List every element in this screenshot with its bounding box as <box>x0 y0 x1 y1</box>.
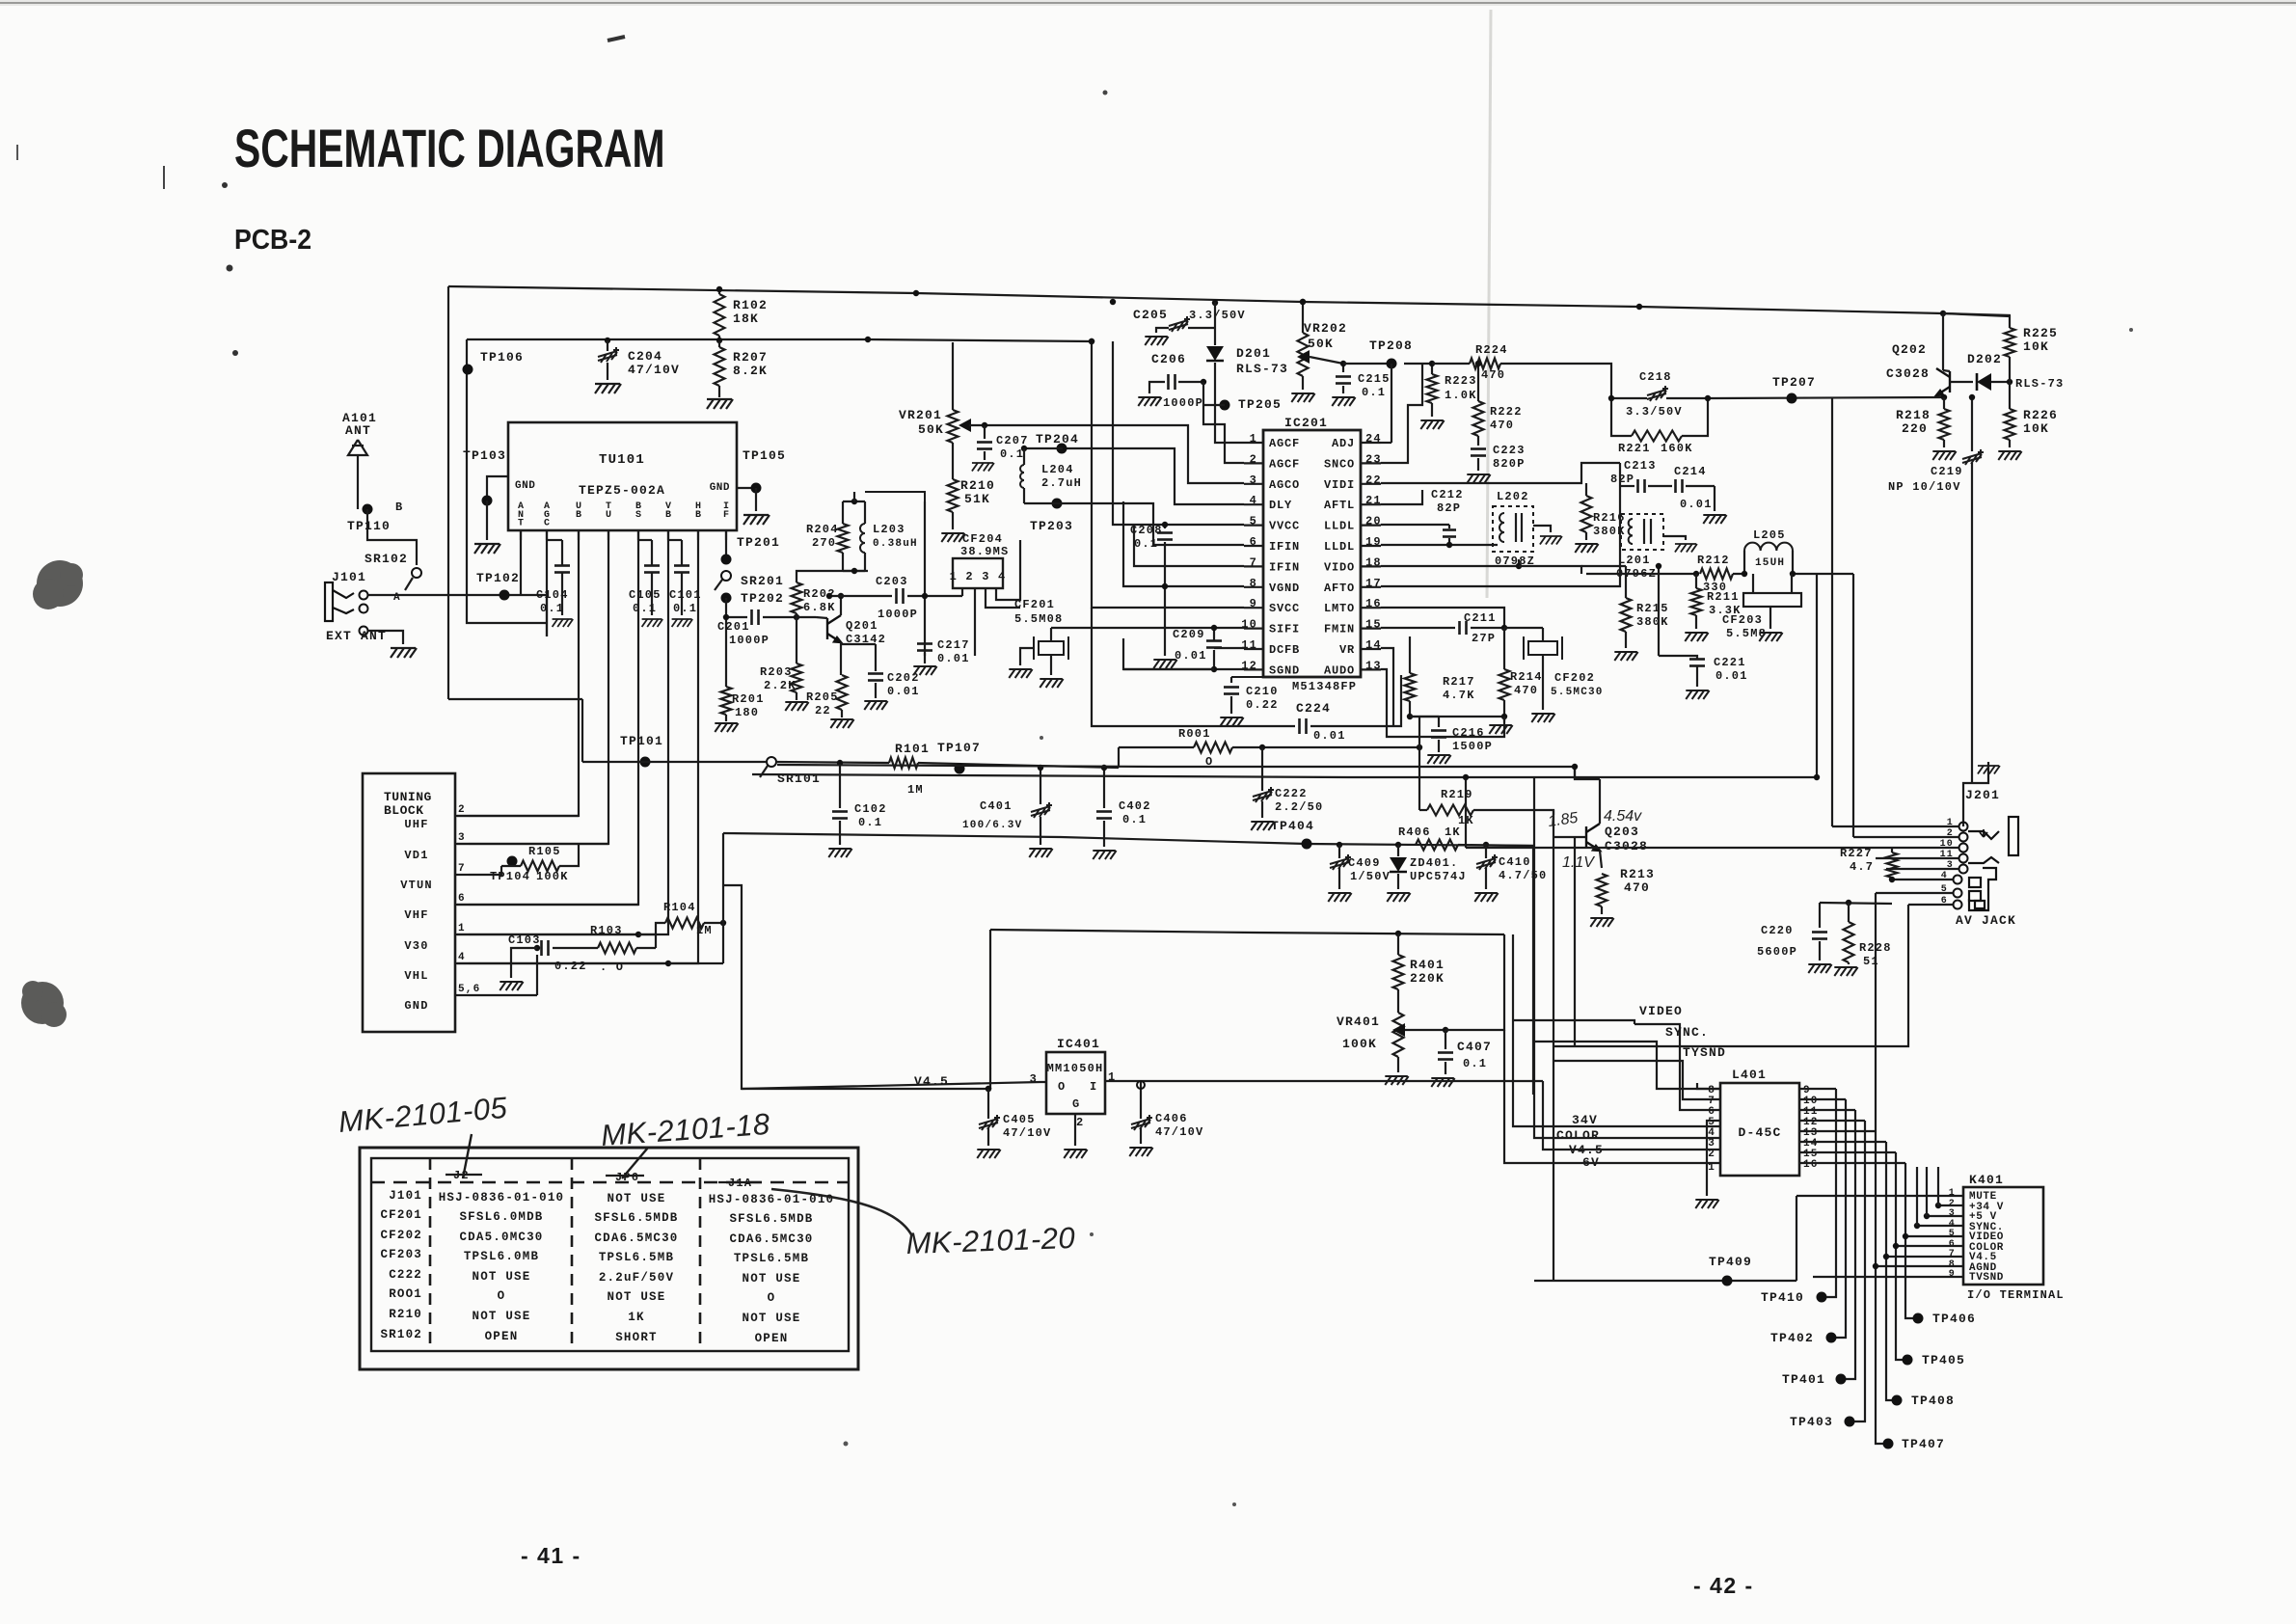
table dashed header line <box>371 1181 849 1184</box>
test point TP104 <box>507 856 518 867</box>
svg-text:SFSL6.0MDB: SFSL6.0MDB <box>459 1210 543 1224</box>
svg-text:4.54v: 4.54v <box>1604 808 1642 825</box>
wire wiper row right <box>1445 934 1504 1030</box>
wire IC401 output bus <box>1105 1080 1543 1082</box>
svg-text:VHF: VHF <box>404 908 428 922</box>
regulator IC401 box <box>1046 1052 1105 1114</box>
capacitor C216 <box>1438 717 1440 727</box>
wire pin19 LLDL <box>1381 544 1498 546</box>
svg-text:R204: R204 <box>806 523 839 536</box>
wire vertical 1976 to TP406 <box>1905 1163 1918 1318</box>
svg-text:- 42 -: - 42 - <box>1693 1573 1754 1598</box>
ground R223 <box>1420 420 1444 429</box>
wire R227 node <box>1889 877 1895 882</box>
svg-text:TP407: TP407 <box>1902 1437 1945 1451</box>
svg-text:27P: 27P <box>1472 632 1496 645</box>
svg-text:TP102: TP102 <box>476 571 520 585</box>
capacitor C223 <box>1471 447 1486 450</box>
wire UHF row <box>469 815 579 817</box>
svg-text:4: 4 <box>458 952 466 963</box>
svg-text:PCB-2: PCB-2 <box>234 224 311 255</box>
table dashed column separator 2 <box>571 1158 574 1351</box>
svg-text:C222: C222 <box>1275 787 1308 800</box>
svg-text:O: O <box>768 1291 776 1305</box>
svg-text:1.0K: 1.0K <box>1445 389 1477 402</box>
ground C214 <box>1714 486 1715 511</box>
svg-text:0.1: 0.1 <box>673 602 697 615</box>
transistor Q201 <box>827 615 841 642</box>
svg-text:3: 3 <box>458 832 466 844</box>
svg-text:1M: 1M <box>696 924 713 937</box>
capacitor C104 <box>554 564 570 567</box>
inductor L203 <box>864 501 866 524</box>
wire TP207 rail <box>1708 397 1944 398</box>
svg-text:C219: C219 <box>1931 465 1963 478</box>
svg-text:1K: 1K <box>1445 826 1461 839</box>
svg-text:0.01: 0.01 <box>1680 498 1713 511</box>
svg-text:CF202: CF202 <box>1554 671 1595 685</box>
svg-text:R219: R219 <box>1441 788 1473 801</box>
ground VR202 <box>1291 393 1314 402</box>
resistor R105 <box>521 861 559 872</box>
svg-text:2.2K: 2.2K <box>764 679 797 692</box>
svg-text:TPSL6.5MB: TPSL6.5MB <box>734 1252 809 1265</box>
wire vertical 1569 <box>1512 934 1514 1092</box>
wire TP204 row <box>1024 447 1063 449</box>
table inner box <box>371 1158 849 1351</box>
svg-text:C218: C218 <box>1639 370 1672 384</box>
wire vertical 1934 to TP403 <box>1850 1121 1865 1421</box>
wire VR201 wiper row <box>969 424 989 426</box>
svg-text:AGCF: AGCF <box>1269 437 1300 450</box>
svg-text:1/50V: 1/50V <box>1350 870 1391 883</box>
svg-text:18K: 18K <box>733 311 759 326</box>
capacitor C209 <box>1206 639 1222 642</box>
svg-text:TP409: TP409 <box>1709 1255 1752 1269</box>
diode D201 <box>1214 328 1216 345</box>
ground C215 <box>1332 397 1355 406</box>
resistor R101 <box>889 758 918 769</box>
capacitor C202 <box>875 644 877 671</box>
ground R218 <box>1932 451 1956 460</box>
ground C406 <box>1129 1148 1152 1156</box>
svg-text:C214: C214 <box>1674 465 1707 478</box>
svg-text:R211: R211 <box>1707 590 1740 604</box>
resistor R225 <box>1943 313 2010 328</box>
svg-text:0.1: 0.1 <box>1463 1057 1487 1070</box>
svg-text:TP106: TP106 <box>480 350 524 365</box>
wire R217 row to R214 <box>1410 716 1504 717</box>
svg-text:MK-2101-20: MK-2101-20 <box>905 1221 1076 1260</box>
svg-text:C203: C203 <box>876 575 908 588</box>
svg-text:R401: R401 <box>1410 958 1445 972</box>
test point TP403 <box>1845 1417 1855 1427</box>
svg-text:SGND: SGND <box>1269 663 1300 677</box>
svg-text:C3028: C3028 <box>1886 366 1930 381</box>
resistor R204 <box>842 501 844 524</box>
svg-text:1500P: 1500P <box>1452 740 1493 753</box>
wire IC201 pin8 VGND <box>1123 501 1244 586</box>
svg-text:TP402: TP402 <box>1770 1331 1814 1345</box>
transformer L201 dashed box <box>1621 514 1663 550</box>
svg-text:NOT USE: NOT USE <box>473 1310 531 1323</box>
svg-text:D-45C: D-45C <box>1738 1125 1781 1140</box>
svg-text:220K: 220K <box>1410 971 1445 986</box>
svg-text:51K: 51K <box>964 492 990 506</box>
capacitor C102 <box>839 763 841 808</box>
wire J201 feeds <box>1832 826 1958 827</box>
svg-text:Q202: Q202 <box>1892 342 1927 357</box>
svg-text:38.9MS: 38.9MS <box>960 545 1009 558</box>
svg-text:C220: C220 <box>1761 924 1794 937</box>
wire VHF row <box>469 904 638 906</box>
svg-text:R101: R101 <box>895 742 930 756</box>
wire VD1 row <box>469 843 608 845</box>
ground C210 <box>1220 717 1243 726</box>
svg-text:ADJ: ADJ <box>1332 437 1355 450</box>
wire TU column <box>457 530 608 844</box>
svg-text:1000P: 1000P <box>1163 396 1203 410</box>
wire L205 bus vertical 1884 <box>1816 574 1818 777</box>
svg-text:C103: C103 <box>508 934 541 947</box>
svg-text:IFIN: IFIN <box>1269 560 1300 574</box>
svg-text:C205: C205 <box>1133 308 1168 322</box>
svg-text:TP406: TP406 <box>1932 1312 1976 1326</box>
svg-text:AGC: AGC <box>544 501 550 529</box>
svg-text:R222: R222 <box>1490 405 1523 419</box>
resistor R203 <box>796 613 797 663</box>
svg-text:2: 2 <box>458 804 466 816</box>
wire bus to C409 <box>1337 842 1342 848</box>
connector K401 box <box>1963 1187 2043 1285</box>
capacitor C402 <box>1103 768 1105 808</box>
title SCHEMATIC DIAGRAM <box>234 120 665 179</box>
test point TP205 <box>1220 400 1230 411</box>
wire pin22 VIDI <box>1381 463 1620 483</box>
svg-text:R226: R226 <box>2023 408 2058 422</box>
svg-text:VR202: VR202 <box>1304 321 1347 336</box>
svg-text:TPSL6.0MB: TPSL6.0MB <box>464 1250 539 1263</box>
svg-text:TP201: TP201 <box>737 535 780 550</box>
delay line L401 box <box>1720 1083 1799 1176</box>
svg-text:VR401: VR401 <box>1337 1015 1380 1029</box>
svg-text:A: A <box>393 592 401 604</box>
wire L401 right pin fanout <box>1799 1088 1836 1090</box>
wire R204/L203 bottom joint <box>843 570 865 572</box>
wire L205 to right verticals <box>1817 573 1853 575</box>
svg-text:UHF: UHF <box>404 818 428 831</box>
wire ANT pin down <box>520 530 522 595</box>
wire outer box left edge <box>447 286 449 699</box>
ground C204 <box>595 384 621 393</box>
svg-text:1: 1 <box>458 923 466 934</box>
svg-text:1M: 1M <box>907 783 924 797</box>
svg-text:380K: 380K <box>1636 615 1669 629</box>
wire left loop to V4.5 <box>723 885 988 1089</box>
svg-text:C224: C224 <box>1296 701 1331 716</box>
svg-text:SIFI: SIFI <box>1269 623 1300 636</box>
svg-text:C208: C208 <box>1130 524 1163 537</box>
svg-text:VVCC: VVCC <box>1269 520 1300 533</box>
svg-text:C210: C210 <box>1246 685 1279 698</box>
svg-text:CDA6.5MC30: CDA6.5MC30 <box>729 1232 813 1246</box>
svg-text:50K: 50K <box>1308 337 1334 351</box>
transformer L202 dashed box <box>1493 506 1533 552</box>
svg-text:AFTO: AFTO <box>1324 582 1355 595</box>
test point TP106 <box>463 365 473 375</box>
svg-text:HSJ-0836-01-010: HSJ-0836-01-010 <box>709 1193 835 1206</box>
test point TP203 <box>1052 499 1063 509</box>
test point TP102 <box>500 590 510 601</box>
svg-text:TP408: TP408 <box>1911 1394 1955 1408</box>
svg-text:L401: L401 <box>1732 1068 1767 1082</box>
svg-text:0.1: 0.1 <box>633 602 657 615</box>
svg-text:TP410: TP410 <box>1761 1290 1804 1305</box>
svg-text:C405: C405 <box>1003 1113 1036 1126</box>
svg-text:R224: R224 <box>1475 343 1508 357</box>
svg-text:C401: C401 <box>980 799 1013 813</box>
junction dots on top buses <box>913 290 919 296</box>
wire vertical 1924 to TP401 <box>1841 1110 1855 1379</box>
svg-text:TP204: TP204 <box>1036 432 1079 447</box>
junction dots on mid buses <box>1814 774 1820 780</box>
svg-text:5600P: 5600P <box>1757 945 1797 959</box>
resistor R202 <box>796 577 797 582</box>
wire junction vertical 1472 <box>1418 717 1420 810</box>
wire IC201 pin9 SVCC <box>1092 341 1244 608</box>
capacitor C409 <box>1338 845 1340 858</box>
scan edge artifacts <box>0 0 2296 6</box>
test point TP407 <box>1883 1439 1894 1449</box>
svg-text:HB: HB <box>695 501 701 521</box>
wire TP110 to J101 <box>367 509 417 565</box>
wire R101 to TP107 <box>918 763 1119 768</box>
svg-text:TP401: TP401 <box>1782 1372 1825 1387</box>
wire L401 pin8 stub <box>1697 1083 1720 1089</box>
svg-text:5: 5 <box>1949 1229 1956 1239</box>
test point TP208 <box>1387 359 1397 369</box>
svg-text:2.7uH: 2.7uH <box>1041 476 1082 490</box>
wire Q202 base to D202 <box>1950 381 1973 383</box>
wire BS column <box>457 530 638 905</box>
test point TP202 <box>721 593 732 604</box>
svg-text:22: 22 <box>815 704 831 717</box>
wire R105 TP104 row <box>469 866 501 875</box>
wire TP203 row <box>1024 502 1063 504</box>
ground C401 <box>1029 849 1052 857</box>
svg-text:51: 51 <box>1863 955 1879 968</box>
svg-text:LLDL: LLDL <box>1324 540 1355 554</box>
wire bottom-left corner column <box>581 699 583 762</box>
resistor R001 <box>1194 743 1232 753</box>
svg-text:3.3/50V: 3.3/50V <box>1626 405 1683 419</box>
wire top supply bus <box>448 286 2011 315</box>
capacitor C101 <box>674 564 689 567</box>
capacitor C222 <box>1261 747 1263 791</box>
svg-text:3: 3 <box>1030 1072 1038 1086</box>
svg-text:TP101: TP101 <box>620 734 663 748</box>
wire vertical 1945 to TP407 <box>1876 1131 1888 1444</box>
test point TP405 <box>1903 1355 1913 1366</box>
wire IC201 pin5 VVCC <box>1113 341 1244 525</box>
ground R201 <box>715 723 738 732</box>
wire AV jack feeds <box>1892 879 1953 880</box>
svg-text:470: 470 <box>1514 684 1538 697</box>
wire TP103 ground stub <box>486 501 488 540</box>
capacitor C405 <box>986 1086 991 1092</box>
wire pin16 LMTO <box>1381 608 1504 626</box>
capacitor C219 <box>1971 397 1973 451</box>
ground TP105 <box>755 488 757 511</box>
svg-text:V30: V30 <box>404 939 428 953</box>
svg-text:C221: C221 <box>1714 656 1746 669</box>
svg-text:SFSL6.5MDB: SFSL6.5MDB <box>729 1212 813 1226</box>
svg-text:0.01: 0.01 <box>1313 729 1346 743</box>
wire VHL row <box>469 962 668 964</box>
svg-text:ROO1: ROO1 <box>389 1287 422 1301</box>
svg-text:2: 2 <box>1076 1116 1084 1129</box>
wire inner bus y351 <box>467 339 1092 341</box>
svg-text:47/10V: 47/10V <box>628 363 680 377</box>
svg-text:82P: 82P <box>1437 501 1461 515</box>
svg-text:HSJ-0836-01-010: HSJ-0836-01-010 <box>439 1191 565 1204</box>
wire wiper to TP208 <box>1343 363 1391 365</box>
wire VB column <box>457 530 668 934</box>
resistor R201 <box>721 687 732 715</box>
test point TP401 <box>1836 1374 1847 1385</box>
wire K401 pin rows to verticals <box>1796 1195 1963 1197</box>
svg-text:R210: R210 <box>389 1308 422 1321</box>
svg-text:SYNC.: SYNC. <box>1665 1025 1709 1040</box>
wire long bus y795 <box>777 765 1575 767</box>
svg-text:TP405: TP405 <box>1922 1353 1965 1367</box>
svg-text:C3028: C3028 <box>1605 839 1648 853</box>
wire R219 to Q203 <box>1473 810 1553 815</box>
svg-text:R210: R210 <box>960 478 995 493</box>
svg-text:3.3K: 3.3K <box>1709 604 1742 617</box>
svg-text:0.01: 0.01 <box>1715 669 1748 683</box>
wire L401 pin5 ground <box>1707 1121 1720 1196</box>
ground C221 <box>1686 690 1709 699</box>
svg-text:K401: K401 <box>1969 1173 2004 1187</box>
wire emitter node <box>1941 394 1947 400</box>
resistor R218 <box>1939 409 1950 440</box>
capacitor C201 <box>726 616 747 618</box>
resistor R205 <box>837 675 848 710</box>
svg-text:TYSND: TYSND <box>1683 1045 1726 1060</box>
wire IC201 pin7 IFIN <box>1134 525 1244 566</box>
ground C409 <box>1328 893 1351 902</box>
svg-text:0.01: 0.01 <box>1175 649 1207 663</box>
tuner block TU101 box <box>508 422 737 530</box>
svg-text:C213: C213 <box>1624 459 1657 473</box>
wire inner bus left edge TP106 column <box>467 339 547 623</box>
wire IC401 G pin ground <box>1074 1114 1076 1146</box>
svg-text:L205: L205 <box>1753 528 1786 542</box>
wire K401 feeder verticals <box>1937 1167 1939 1205</box>
svg-text:C215: C215 <box>1358 372 1391 386</box>
svg-text:I/O TERMINAL: I/O TERMINAL <box>1967 1288 2065 1302</box>
svg-text:C102: C102 <box>854 802 887 816</box>
wire J201 feed vertical 1520 <box>1465 777 1467 848</box>
svg-text:1K: 1K <box>628 1311 644 1324</box>
switch SR201 <box>721 571 731 581</box>
wire vertical 1966 to TP405 <box>1896 1152 1907 1360</box>
svg-text:RLS-73: RLS-73 <box>1236 362 1288 376</box>
svg-text:C101: C101 <box>669 588 702 602</box>
svg-text:IF: IF <box>723 501 729 521</box>
wire outer box bottom edge <box>448 698 582 700</box>
ground CF202 <box>1531 714 1554 722</box>
svg-text:O: O <box>1058 1080 1066 1094</box>
svg-text:C212: C212 <box>1431 488 1464 501</box>
wire TP409 bus <box>1534 1280 1796 1282</box>
variable resistor VR401 <box>1393 1013 1404 1057</box>
handwritten MK-2101-05 <box>338 1091 1076 1260</box>
wire IC201 pin11 DCFB <box>1214 647 1244 649</box>
svg-text:TP203: TP203 <box>1030 519 1073 533</box>
wire C224 to IC column <box>1310 675 1401 726</box>
resistor R227 <box>1891 848 1893 853</box>
diode D202 <box>1977 373 1991 391</box>
wire vertical 1633 <box>1574 767 1576 779</box>
svg-text:TEPZ5-002A: TEPZ5-002A <box>579 483 665 498</box>
wire R202 top to bus <box>797 571 868 577</box>
svg-text:2.2/50: 2.2/50 <box>1275 800 1323 814</box>
capacitor C407 <box>1443 1027 1448 1033</box>
resistor R228 <box>1848 903 1850 922</box>
svg-text:DLY: DLY <box>1269 499 1292 512</box>
svg-text:3: 3 <box>1949 1208 1956 1219</box>
wire pin14 VR <box>1381 648 1393 726</box>
test point TP201 <box>721 555 732 565</box>
svg-text:4.7: 4.7 <box>1850 860 1874 874</box>
svg-text:R201: R201 <box>732 692 765 706</box>
wire AGC column stub <box>546 595 548 636</box>
test point TP402 <box>1826 1333 1837 1343</box>
svg-text:180: 180 <box>735 706 759 719</box>
ground C410 <box>1474 893 1498 902</box>
ground C223 <box>1467 474 1490 483</box>
svg-text:TUNING: TUNING <box>384 790 432 804</box>
svg-text:R406: R406 <box>1398 826 1431 839</box>
capacitor C224 <box>1298 718 1301 734</box>
wire IC201 pin6 IFIN <box>1063 503 1244 545</box>
transistor Q202 <box>1940 311 1946 316</box>
svg-text:0.38uH: 0.38uH <box>873 538 918 550</box>
svg-text:2.2uF/50V: 2.2uF/50V <box>599 1271 674 1285</box>
wire HB column <box>457 530 698 963</box>
wire vertical 1591 jog <box>1533 777 1535 1095</box>
svg-text:OPEN: OPEN <box>755 1332 789 1345</box>
ground R215 <box>1614 652 1637 661</box>
svg-text:4.7/50: 4.7/50 <box>1499 869 1547 882</box>
table dashed column separator 1 <box>429 1158 432 1351</box>
wire pin24 ADJ to TP208 column <box>1381 442 1391 444</box>
svg-text:NOT USE: NOT USE <box>473 1270 531 1284</box>
capacitor C220 <box>1820 903 1892 904</box>
ground R226 <box>1998 451 2021 460</box>
wire IF column lower <box>725 598 727 687</box>
svg-text:CF204: CF204 <box>962 532 1003 546</box>
capacitor C406 <box>1140 1081 1142 1119</box>
capacitor C208 <box>1164 525 1166 528</box>
AV jack symbol <box>1969 868 1996 910</box>
svg-text:TP403: TP403 <box>1790 1415 1833 1429</box>
svg-text:BS: BS <box>635 501 641 521</box>
wire right bend down from R406 row <box>1532 846 1534 1095</box>
wire R001 to junction <box>1232 746 1419 748</box>
